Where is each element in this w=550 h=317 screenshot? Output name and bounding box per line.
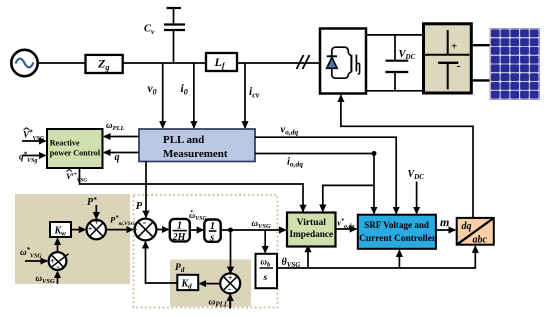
- wire vo,dq: [255, 137, 396, 213]
- svg-text:P: P: [136, 201, 143, 212]
- node vo tap: [162, 63, 164, 128]
- branch omega to wb/s: [264, 230, 266, 253]
- svg-text:power Control: power Control: [50, 148, 101, 158]
- svg-text:abc: abc: [473, 235, 488, 246]
- Reactive power Control block: [47, 129, 103, 168]
- junction dot omega: [228, 228, 233, 233]
- wire Lf to converter: [237, 62, 320, 64]
- block wb/s: [256, 254, 278, 288]
- input V*vsg: [22, 140, 46, 142]
- svg-text:SRF Voltage and: SRF Voltage and: [364, 221, 429, 231]
- impedance Zg: [86, 55, 123, 73]
- wire VI to SRF : v*o,dq: [336, 228, 357, 230]
- wire dq/abc to converter gate: [341, 95, 473, 218]
- PLL and Measurement block U1: [139, 129, 255, 162]
- VDC measurement stub: [416, 182, 418, 214]
- DC-link capacitor: [394, 35, 396, 61]
- svg-text:+: +: [88, 224, 93, 234]
- wire Kw to S2: [71, 229, 85, 231]
- PV solar panel: [490, 29, 540, 100]
- damping summing junction S3: [220, 273, 240, 293]
- svg-text:q: q: [115, 152, 120, 163]
- input omega_PLL (bottom stub): [229, 294, 231, 308]
- junction dot io,dq: [372, 151, 377, 156]
- block Kw: [50, 222, 71, 237]
- input P*: [95, 205, 97, 219]
- diode D1: [327, 55, 337, 57]
- SRF Voltage and Current Controller block: [358, 215, 436, 249]
- IGBT loop wire: [332, 47, 349, 78]
- three-phase slash marks: [297, 55, 304, 69]
- wire S3 to Kd: [200, 283, 221, 285]
- svg-text:-: -: [57, 261, 60, 271]
- svg-text:Current Controller: Current Controller: [359, 234, 437, 244]
- filter inductor Lf: [206, 53, 237, 71]
- wires battery to PV: [471, 44, 490, 46]
- wire 1/2H to 1/s: [190, 229, 204, 231]
- theta branch up into SRF: [398, 250, 400, 268]
- input omega_vsg (bottom): [57, 272, 59, 284]
- wire Kd to P junction bottom: [146, 242, 178, 283]
- wire Zg to Lf: [123, 62, 206, 64]
- wire source to Zg: [38, 62, 86, 64]
- shaded tan region (damping): [170, 260, 251, 307]
- wire P to 1/2H: [156, 229, 168, 231]
- node icv tap: [244, 63, 246, 128]
- grid source G1: [11, 50, 37, 76]
- output Vhat*vsg wire to Virtual Impedance: [80, 168, 304, 211]
- dotted swing-equation region border: [134, 195, 278, 308]
- wire PLL to Reactive: omega_PLL: [104, 136, 139, 138]
- block Kd: [177, 275, 198, 290]
- svg-text:-: -: [143, 218, 146, 229]
- svg-text:-: -: [228, 284, 231, 294]
- svg-text:Measurement: Measurement: [163, 148, 228, 160]
- battery / boost block: [424, 24, 472, 93]
- svg-text:s: s: [263, 273, 268, 283]
- dq/abc transform block: [457, 218, 494, 245]
- wire io,dq: [255, 154, 374, 214]
- shaded tan region (governor): [15, 194, 130, 284]
- svg-text:dq: dq: [462, 221, 472, 232]
- wire S2 to P junction : P*m,VSG: [106, 229, 133, 231]
- wire S1 to Kw: [57, 239, 59, 253]
- input omega*vsg: [25, 260, 47, 262]
- svg-text:+: +: [50, 256, 55, 266]
- svg-text:Virtual: Virtual: [297, 217, 327, 227]
- theta_vsg wire: [277, 246, 475, 268]
- svg-text:m: m: [440, 215, 449, 229]
- block 1/s: [204, 220, 220, 242]
- svg-text:Impedance: Impedance: [290, 229, 334, 239]
- svg-text:Reactive: Reactive: [50, 137, 80, 147]
- summing junction S2: [87, 220, 106, 239]
- svg-text:+: +: [132, 225, 138, 236]
- branch omega down to damping junction: [230, 230, 232, 273]
- svg-text:+: +: [228, 273, 233, 283]
- wire P measurement down from PLL: [145, 162, 147, 218]
- svg-text:-: -: [457, 59, 461, 73]
- branch io,dq to Virtual Impedance: [323, 185, 374, 211]
- Virtual Impedance block: [287, 213, 336, 247]
- converter (inverter) block: [320, 29, 366, 94]
- svg-text:PLL and: PLL and: [163, 134, 204, 146]
- svg-text:2H: 2H: [172, 232, 187, 243]
- svg-text:+: +: [451, 41, 457, 53]
- block 1/2H: [170, 219, 190, 242]
- DC rails: [366, 34, 424, 36]
- node io tap: [193, 63, 195, 128]
- input q*vsg: [22, 155, 46, 157]
- summing junction S1 (governor input): [49, 252, 67, 270]
- summing junction P: [135, 219, 157, 241]
- IGBT Q1: [348, 54, 351, 75]
- theta branch up into Virtual Impedance: [307, 246, 309, 268]
- capacitor Cv branch: [173, 31, 175, 64]
- svg-text:s: s: [209, 232, 214, 243]
- wire PLL to Reactive: q: [104, 152, 139, 154]
- wire 1/s to Virtual Impedance : omega_vsg: [221, 229, 286, 231]
- wire SRF to dq/abc : m: [436, 229, 455, 231]
